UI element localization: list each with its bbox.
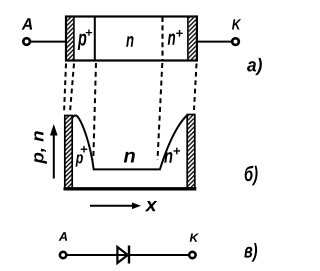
- cathode terminal circle: [189, 252, 195, 258]
- dashed line from left contact inner edge: [70, 64, 74, 113]
- label x: [145, 201, 157, 211]
- label b): [245, 166, 258, 186]
- right contact inner boundary line: [187, 17, 189, 61]
- label p+ (top region): [78, 34, 87, 50]
- label K (cathode): [232, 19, 241, 29]
- axis label p, n (rotated): [34, 131, 47, 164]
- label a): [247, 58, 262, 75]
- left metal contact hatched strip: [67, 18, 73, 60]
- dashed line from n/n+ boundary: [158, 63, 163, 160]
- terminal K lead wire: [197, 41, 233, 43]
- p+/n junction line: [94, 17, 96, 61]
- terminal K circle: [232, 38, 239, 45]
- right metal contact hatched strip: [189, 18, 196, 60]
- wire: [67, 254, 189, 256]
- device body rectangle: [66, 17, 197, 61]
- terminal A circle: [23, 38, 30, 45]
- diode cathode bar: [128, 246, 130, 264]
- label n (profile): [124, 152, 135, 163]
- right hatched wall: [187, 115, 195, 189]
- label n (top region): [126, 36, 133, 47]
- dashed line from p+/n junction: [93, 63, 96, 160]
- carrier concentration curve: [72, 115, 187, 169]
- label p+ (profile): [76, 154, 83, 166]
- terminal A lead wire: [29, 41, 66, 43]
- x axis baseline: [64, 187, 197, 190]
- left contact inner boundary line: [73, 17, 75, 61]
- diode VD triangle: [117, 247, 127, 263]
- dashed line from body left edge: [64, 64, 66, 114]
- dashed line from body right edge: [194, 64, 197, 111]
- p,n axis arrow: [53, 130, 55, 179]
- label n+ (profile): [164, 152, 172, 163]
- label v): [244, 243, 257, 262]
- label n+ (top region): [168, 34, 175, 45]
- x axis arrow: [90, 205, 134, 207]
- label A (anode): [22, 18, 32, 29]
- n/n+ boundary dashed line: [161, 17, 163, 60]
- label A (circuit): [59, 232, 68, 241]
- anode terminal circle: [60, 252, 66, 258]
- label K (circuit): [190, 234, 199, 242]
- left hatched wall: [65, 116, 72, 189]
